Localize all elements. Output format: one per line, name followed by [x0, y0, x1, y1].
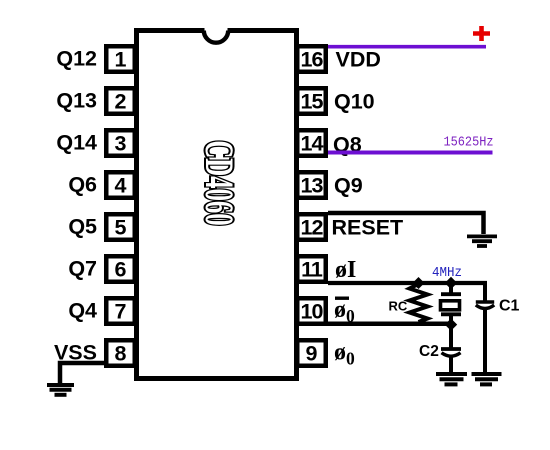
- ground VSS: [47, 385, 74, 395]
- svg-text:13: 13: [301, 174, 324, 198]
- notch: [205, 26, 228, 34]
- wire Q8 purple: [328, 151, 493, 155]
- capacitor C2: [449, 327, 453, 348]
- svg-text:RESET: RESET: [332, 216, 404, 240]
- svg-text:3: 3: [115, 132, 127, 156]
- pin 10 box: [297, 298, 326, 324]
- pin 1 box: [106, 46, 135, 72]
- pin 7 box: [106, 298, 135, 324]
- pin 2 box: [106, 88, 135, 114]
- svg-text:15: 15: [301, 90, 324, 114]
- pin 12 box: [297, 214, 326, 240]
- svg-text:Q13: Q13: [56, 89, 97, 113]
- pin 3 box: [106, 130, 135, 156]
- node + supply: [473, 26, 490, 41]
- ground C1: [472, 374, 502, 384]
- svg-text:10: 10: [301, 300, 324, 324]
- svg-text:CD4060: CD4060: [196, 140, 240, 225]
- svg-text:øI: øI: [335, 257, 356, 283]
- svg-text:4: 4: [115, 174, 127, 198]
- svg-text:Q6: Q6: [68, 173, 97, 197]
- svg-text:RC: RC: [389, 299, 408, 314]
- op-amp U1 : CD4060 IC body: [137, 31, 297, 379]
- svg-text:4MHz: 4MHz: [432, 266, 462, 281]
- svg-text:Q10: Q10: [334, 90, 375, 114]
- svg-text:Q9: Q9: [334, 174, 363, 198]
- ground C2: [436, 374, 467, 384]
- wire VSS: [60, 363, 105, 383]
- pin 6 box: [106, 256, 135, 282]
- svg-text:11: 11: [301, 258, 323, 282]
- svg-text:7: 7: [115, 300, 127, 324]
- svg-text:Q5: Q5: [68, 215, 97, 239]
- svg-text:2: 2: [115, 90, 127, 114]
- svg-text:12: 12: [301, 216, 324, 240]
- node junction A: [413, 277, 425, 289]
- svg-text:5: 5: [115, 216, 127, 240]
- svg-text:1: 1: [115, 48, 127, 72]
- svg-text:Q12: Q12: [56, 47, 97, 71]
- svg-text:Q7: Q7: [68, 257, 97, 281]
- svg-text:16: 16: [301, 48, 324, 72]
- svg-text:9: 9: [306, 342, 318, 366]
- svg-text:VDD: VDD: [336, 48, 381, 72]
- wire pin10 to oscillator: [328, 322, 451, 327]
- pin 14 box: [297, 130, 326, 156]
- pin 16 box: [297, 46, 326, 72]
- node junction B: [445, 277, 457, 289]
- resistor RC: [410, 284, 428, 322]
- node junction C: [445, 318, 457, 330]
- pin 8 box: [106, 340, 135, 366]
- svg-text:C1: C1: [499, 298, 520, 315]
- pin 4 box: [106, 172, 135, 198]
- svg-text:C2: C2: [419, 343, 439, 360]
- pin 13 box: [297, 172, 326, 198]
- capacitor C1: [483, 281, 487, 301]
- wire VDD purple: [328, 45, 486, 49]
- svg-text:15625Hz: 15625Hz: [444, 135, 494, 151]
- pin 9 box: [297, 340, 326, 366]
- pin 5 box: [106, 214, 135, 240]
- svg-text:8: 8: [115, 342, 127, 366]
- ground RESET: [467, 236, 497, 246]
- pin 11 box: [297, 256, 326, 282]
- pin 15 box: [297, 88, 326, 114]
- svg-text:Q14: Q14: [56, 131, 97, 155]
- svg-text:6: 6: [115, 258, 127, 282]
- wire RESET: [328, 213, 484, 234]
- CD4060 label: [196, 140, 240, 225]
- wire pin11 to oscillator: [328, 281, 487, 285]
- svg-text:14: 14: [301, 132, 324, 156]
- svg-text:Q4: Q4: [68, 299, 97, 323]
